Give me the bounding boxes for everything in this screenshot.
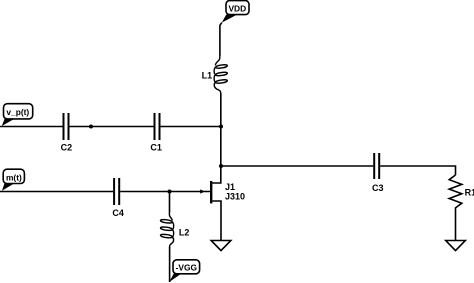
svg-text:-VGG: -VGG (176, 262, 197, 272)
svg-text:v_p(t): v_p(t) (6, 107, 29, 117)
svg-text:L1: L1 (202, 71, 213, 81)
svg-text:C2: C2 (61, 143, 73, 153)
svg-text:C4: C4 (112, 208, 124, 218)
svg-text:L2: L2 (179, 227, 190, 237)
svg-text:C3: C3 (372, 183, 384, 193)
svg-text:J310: J310 (225, 192, 245, 202)
svg-text:R1: R1 (465, 187, 474, 197)
svg-text:m(t): m(t) (6, 172, 22, 182)
svg-text:J1: J1 (225, 182, 235, 192)
svg-text:VDD: VDD (228, 3, 246, 13)
svg-text:C1: C1 (150, 143, 162, 153)
